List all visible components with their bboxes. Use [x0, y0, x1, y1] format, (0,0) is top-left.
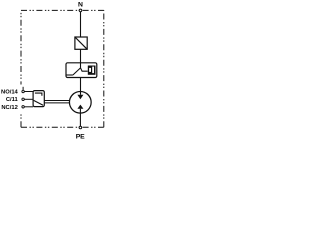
wire N to disconnector [80, 12, 82, 37]
left border stub at terminals [22, 87, 24, 91]
thermal disconnector F1 (box with diagonal) [75, 37, 87, 49]
monitoring device box [66, 63, 97, 78]
terminal node PE [79, 126, 82, 129]
wire monitoring box to spark gap [80, 78, 82, 95]
changeover NO contact line [35, 93, 42, 96]
enclosure dash-dot border left upper [20, 13, 22, 85]
wire NO/14 [24, 91, 33, 93]
wire NC/12 [24, 106, 33, 108]
enclosure dash-dot border left lower [20, 113, 22, 127]
changeover blade [34, 100, 44, 105]
enclosure dash-dot border bottom [21, 126, 104, 128]
switch fixed line [66, 74, 73, 76]
spark gap lower arrow [77, 105, 83, 109]
mechanical link double line [44, 101, 70, 103]
remote signalling changeover contact box [33, 91, 44, 107]
svg-text:NC/12: NC/12 [1, 105, 17, 111]
terminal node N [79, 9, 82, 12]
spark gap upper arrow [77, 95, 83, 100]
svg-text:NO/14: NO/14 [1, 89, 19, 95]
link to fuse element [81, 68, 88, 71]
enclosure dash-dot border top [21, 9, 104, 11]
fuse element with indicator [88, 66, 96, 75]
svg-text:N: N [78, 1, 83, 8]
wire spark gap to PE [79, 109, 81, 126]
wire disconnector to monitoring box [80, 49, 82, 68]
terminal NO/14 [22, 90, 24, 92]
terminal C/11 [22, 98, 24, 100]
spark gap circle [69, 91, 91, 113]
switch blade [73, 68, 81, 75]
terminal NC/12 [22, 106, 24, 108]
wire C/11 [24, 98, 33, 100]
enclosure dash-dot border right [103, 10, 105, 127]
svg-text:C/11: C/11 [6, 97, 19, 103]
svg-text:PE: PE [76, 134, 85, 141]
